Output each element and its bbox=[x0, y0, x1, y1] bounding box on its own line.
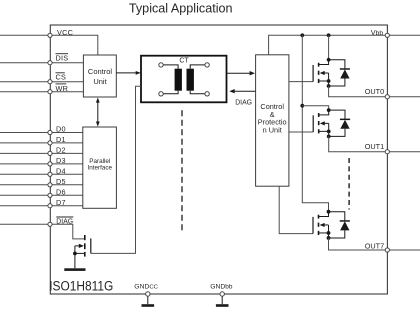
svg-text:DIAG: DIAG bbox=[235, 100, 252, 107]
svg-text:DIS: DIS bbox=[56, 54, 69, 63]
svg-text:CT: CT bbox=[179, 58, 189, 65]
svg-text:CS: CS bbox=[56, 73, 67, 82]
svg-text:D0: D0 bbox=[56, 125, 66, 134]
svg-text:D5: D5 bbox=[56, 177, 66, 186]
svg-text:D1: D1 bbox=[56, 135, 66, 144]
svg-text:Control: Control bbox=[88, 67, 113, 76]
svg-text:VCC: VCC bbox=[57, 28, 73, 37]
svg-text:GNDCC: GNDCC bbox=[134, 284, 158, 291]
svg-text:GNDbb: GNDbb bbox=[210, 284, 233, 291]
svg-text:n Unit: n Unit bbox=[263, 126, 282, 135]
svg-text:OUT1: OUT1 bbox=[365, 142, 384, 151]
svg-text:Unit: Unit bbox=[93, 77, 107, 86]
svg-text:D2: D2 bbox=[56, 146, 66, 155]
svg-text:OUT7: OUT7 bbox=[365, 242, 384, 251]
svg-text:WR: WR bbox=[56, 84, 69, 93]
svg-text:OUT0: OUT0 bbox=[365, 87, 384, 96]
svg-text:Interface: Interface bbox=[88, 165, 113, 172]
svg-text:D6: D6 bbox=[56, 187, 66, 196]
svg-text:D3: D3 bbox=[56, 156, 66, 165]
svg-text:ISO1H811G: ISO1H811G bbox=[49, 278, 113, 294]
svg-text:DIAG: DIAG bbox=[56, 219, 73, 226]
svg-text:Vbb: Vbb bbox=[371, 28, 384, 37]
svg-text:D7: D7 bbox=[56, 198, 66, 207]
svg-text:D4: D4 bbox=[56, 166, 66, 175]
svg-text:Typical Application: Typical Application bbox=[129, 2, 233, 16]
